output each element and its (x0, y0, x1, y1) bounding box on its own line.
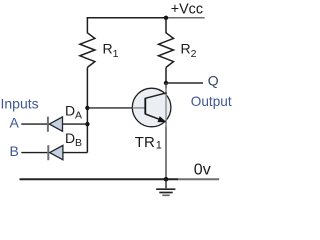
transistor TR1 collector stroke (145, 93, 166, 99)
label R2 (181, 41, 197, 61)
label TR1 (135, 134, 162, 152)
wire DA anode lead (63, 123, 88, 125)
wire DB anode lead (63, 152, 88, 154)
svg-text:1: 1 (156, 139, 162, 151)
wire output Q lead (166, 82, 203, 84)
svg-text:R: R (103, 41, 113, 57)
wire ground rail (right segment) (178, 178, 219, 180)
label input B (10, 143, 19, 159)
svg-text:A: A (10, 114, 20, 130)
svg-text:TR: TR (135, 134, 155, 151)
diode DA (49, 117, 62, 131)
resistor R2 (159, 33, 174, 68)
svg-text:+Vcc: +Vcc (171, 2, 203, 18)
svg-text:D: D (65, 102, 75, 118)
diode DB (50, 145, 63, 159)
svg-text:A: A (75, 109, 82, 121)
label Output (191, 94, 232, 109)
label input A (10, 114, 20, 130)
diode DA cathode bar (47, 117, 49, 132)
label +Vcc (171, 2, 203, 18)
diode DB cathode bar (47, 145, 49, 160)
ground symbol bar 2 (159, 192, 172, 194)
wire R2 top lead (165, 18, 167, 34)
wire input B lead (21, 152, 47, 154)
wire input A lead (21, 123, 47, 125)
wire base lead segment inside body (132, 107, 145, 109)
label Inputs (1, 95, 39, 111)
svg-text:Output: Output (191, 94, 232, 109)
wire R1 top lead (86, 17, 88, 33)
svg-text:Q: Q (208, 72, 219, 88)
wire R2 bottom lead to collector node (165, 67, 167, 83)
wire collector-emitter vertical down to ground (165, 83, 167, 179)
ground symbol bar 3 (162, 194, 169, 196)
svg-text:B: B (75, 137, 82, 149)
ground symbol bar 1 (156, 188, 175, 190)
node Vcc junction (164, 16, 168, 20)
label DB (65, 130, 82, 149)
svg-text:B: B (10, 143, 19, 159)
label R1 (103, 41, 119, 61)
wire ground rail (left segment) (20, 178, 179, 180)
transistor TR1 body (132, 88, 171, 127)
wire top rail +Vcc (left segment) (87, 17, 166, 19)
label DA (65, 102, 82, 121)
svg-text:R: R (181, 41, 191, 57)
resistor R1 (80, 33, 95, 68)
svg-text:0v: 0v (194, 161, 211, 178)
wire base lead to transistor (87, 107, 132, 109)
node collector junction (164, 81, 168, 85)
svg-text:Inputs: Inputs (1, 95, 39, 111)
node diode A junction (85, 122, 89, 126)
svg-text:2: 2 (191, 48, 197, 60)
wire collector-emitter segment crossing body (165, 88, 167, 127)
transistor TR1 base bar (144, 98, 146, 114)
label Q (208, 72, 219, 88)
svg-text:1: 1 (113, 48, 119, 60)
wire top rail +Vcc (right segment) (166, 17, 205, 19)
node base junction (85, 106, 89, 110)
label 0v (194, 161, 211, 178)
svg-text:D: D (65, 130, 75, 146)
wire R1 bottom lead down to diode column (86, 67, 88, 152)
transistor TR1 emitter stroke with arrow (145, 114, 166, 122)
node emitter-ground junction (164, 177, 169, 182)
ground symbol stub (165, 179, 167, 188)
